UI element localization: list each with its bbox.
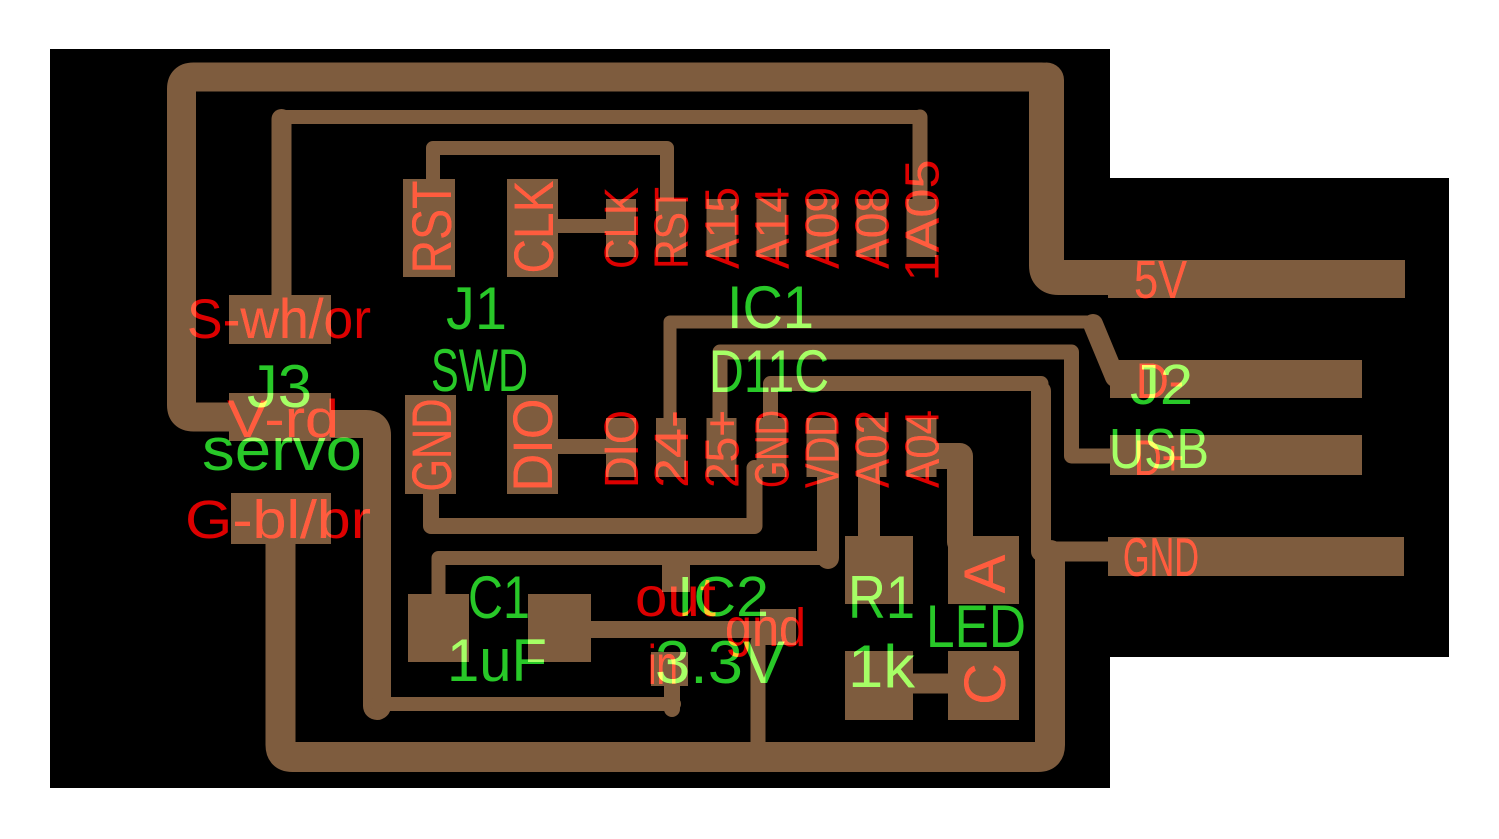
svg-text:A14: A14 xyxy=(747,187,800,269)
svg-text:A15: A15 xyxy=(697,187,750,269)
svg-text:25+: 25+ xyxy=(697,410,750,488)
svg-text:S-wh/or: S-wh/or xyxy=(187,287,371,350)
svg-text:J2: J2 xyxy=(1130,353,1193,417)
svg-text:J3: J3 xyxy=(247,353,312,420)
svg-text:A09: A09 xyxy=(797,187,850,269)
svg-text:DIO: DIO xyxy=(501,399,564,492)
svg-text:A08: A08 xyxy=(847,187,900,269)
svg-text:LED: LED xyxy=(926,593,1026,660)
svg-text:USB: USB xyxy=(1109,417,1209,481)
svg-text:GND: GND xyxy=(400,399,463,492)
svg-text:C1: C1 xyxy=(468,564,530,631)
svg-text:CLK: CLK xyxy=(502,181,565,274)
svg-text:G-bl/br: G-bl/br xyxy=(185,490,371,550)
svg-text:1A05: 1A05 xyxy=(897,160,950,282)
svg-text:SWD: SWD xyxy=(431,337,528,404)
svg-text:A02: A02 xyxy=(847,410,900,488)
svg-text:D11C: D11C xyxy=(709,338,829,405)
svg-text:RST: RST xyxy=(400,181,463,274)
svg-text:VDD: VDD xyxy=(797,410,850,488)
svg-text:R1: R1 xyxy=(848,564,915,631)
svg-text:DIO: DIO xyxy=(596,410,649,488)
svg-text:A: A xyxy=(953,554,1018,593)
svg-text:1k: 1k xyxy=(848,633,916,700)
svg-text:CLK: CLK xyxy=(596,187,649,269)
svg-text:GND: GND xyxy=(747,410,800,488)
svg-text:1uF: 1uF xyxy=(447,627,547,694)
svg-text:IC2: IC2 xyxy=(677,565,769,629)
svg-text:servo: servo xyxy=(202,416,362,483)
svg-text:C: C xyxy=(953,663,1018,705)
svg-text:IC1: IC1 xyxy=(727,274,814,341)
svg-text:24-: 24- xyxy=(646,410,699,488)
svg-text:3.3V: 3.3V xyxy=(655,629,785,696)
svg-text:5V: 5V xyxy=(1134,250,1187,310)
svg-text:A04: A04 xyxy=(897,410,950,488)
svg-text:J1: J1 xyxy=(446,275,507,342)
svg-text:RST: RST xyxy=(646,187,699,269)
svg-text:GND: GND xyxy=(1123,526,1199,588)
